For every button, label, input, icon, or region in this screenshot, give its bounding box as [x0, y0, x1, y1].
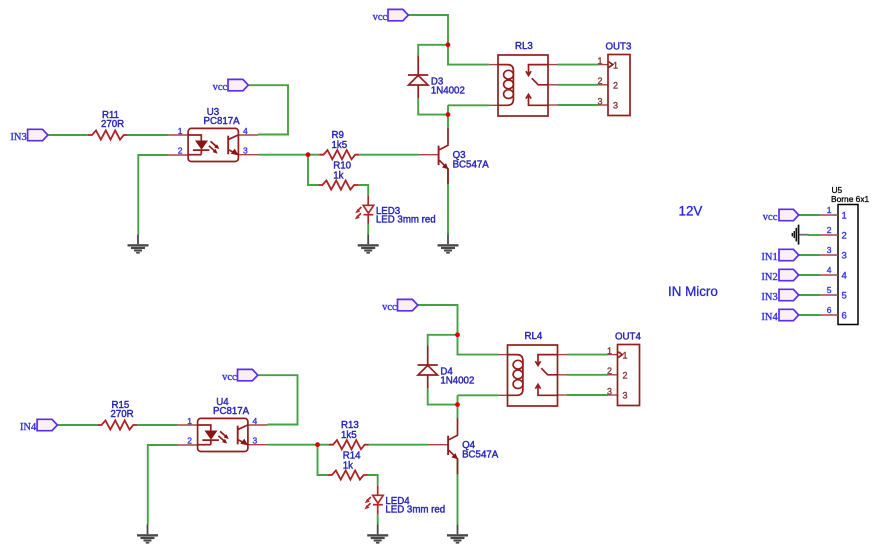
svg-text:1: 1 [613, 60, 618, 70]
svg-text:LED 3mm red: LED 3mm red [376, 215, 436, 226]
svg-text:2: 2 [597, 76, 602, 86]
svg-text:2: 2 [178, 146, 183, 156]
svg-text:1k: 1k [333, 170, 343, 181]
svg-text:5: 5 [842, 291, 847, 302]
svg-text:PC817A: PC817A [204, 116, 241, 127]
svg-text:1N4002: 1N4002 [431, 85, 465, 96]
svg-text:PC817A: PC817A [213, 406, 250, 417]
svg-text:1N4002: 1N4002 [440, 375, 474, 386]
svg-text:1: 1 [842, 211, 847, 222]
svg-text:6: 6 [842, 311, 847, 322]
svg-text:270R: 270R [101, 119, 124, 130]
svg-text:4: 4 [243, 126, 248, 136]
svg-text:RL4: RL4 [525, 331, 543, 342]
svg-text:3: 3 [827, 245, 832, 255]
svg-text:BC547A: BC547A [462, 450, 499, 461]
svg-text:4: 4 [827, 265, 832, 275]
svg-text:3: 3 [243, 146, 248, 156]
svg-text:2: 2 [827, 225, 832, 235]
svg-text:1: 1 [178, 126, 183, 136]
svg-text:OUT4: OUT4 [615, 332, 641, 343]
svg-text:IN4: IN4 [20, 422, 37, 433]
svg-text:LED 3mm red: LED 3mm red [385, 505, 445, 516]
svg-text:vcc: vcc [763, 212, 778, 223]
svg-text:IN Micro: IN Micro [668, 284, 718, 299]
svg-text:vcc: vcc [213, 82, 228, 93]
svg-text:BC547A: BC547A [453, 160, 490, 171]
svg-text:5: 5 [827, 285, 832, 295]
svg-text:6: 6 [827, 305, 832, 315]
svg-text:vcc: vcc [373, 12, 388, 23]
svg-text:3: 3 [842, 251, 847, 262]
svg-text:1: 1 [827, 205, 832, 215]
svg-text:IN3: IN3 [761, 292, 777, 303]
svg-text:4: 4 [842, 271, 847, 282]
svg-text:3: 3 [597, 96, 602, 106]
svg-text:RL3: RL3 [515, 41, 533, 52]
svg-text:IN3: IN3 [10, 132, 26, 143]
svg-text:1k5: 1k5 [332, 140, 348, 151]
svg-text:Borne 6x1: Borne 6x1 [831, 194, 870, 204]
svg-text:IN2: IN2 [761, 272, 777, 283]
svg-text:IN1: IN1 [761, 252, 777, 263]
svg-text:OUT3: OUT3 [606, 42, 632, 53]
svg-text:1k: 1k [343, 460, 353, 471]
svg-text:270R: 270R [111, 409, 134, 420]
svg-text:2: 2 [842, 231, 847, 242]
svg-text:12V: 12V [679, 203, 703, 218]
svg-text:3: 3 [613, 101, 618, 111]
svg-text:IN4: IN4 [761, 312, 778, 323]
svg-text:1: 1 [597, 56, 602, 66]
svg-text:1k5: 1k5 [341, 430, 357, 441]
svg-text:2: 2 [613, 81, 618, 91]
